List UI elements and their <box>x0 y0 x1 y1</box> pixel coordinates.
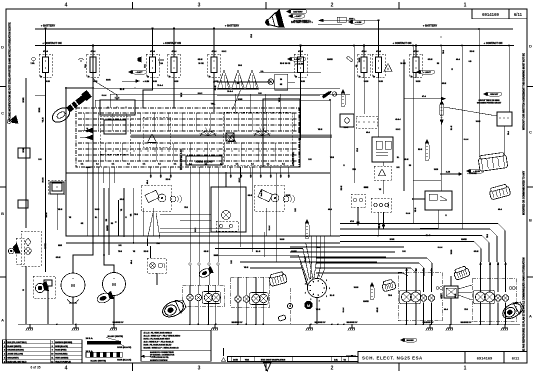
svg-text:RS-N: RS-N <box>470 51 475 53</box>
svg-text:6/11: 6/11 <box>512 356 520 361</box>
svg-text:30.08: 30.08 <box>476 121 481 123</box>
svg-text:30.08: 30.08 <box>43 177 45 183</box>
svg-text:6/11: 6/11 <box>514 12 523 17</box>
svg-text:MASSE DV CONNECTEUR: MASSE DV CONNECTEUR <box>150 351 174 354</box>
svg-text:GE-N: GE-N <box>404 159 409 161</box>
svg-text:+ LIGHT: + LIGHT <box>423 72 432 74</box>
svg-text:1: 1 <box>464 366 467 372</box>
svg-text:+ BATTERY: + BATTERY <box>423 24 437 28</box>
svg-text:ROSE (PINK): ROSE (PINK) <box>55 350 66 352</box>
svg-text:NOIR: NOIR <box>106 80 111 82</box>
svg-text:NOIR: NOIR <box>299 127 301 132</box>
svg-text:SCH. ELECT. NG25 ESA: SCH. ELECT. NG25 ESA <box>362 356 423 361</box>
svg-text:47-A-5 : FIL VERT-NOIR GRIS-N: 47-A-5 : FIL VERT-NOIR GRIS-N <box>144 332 173 335</box>
svg-text:3: 3 <box>305 292 306 294</box>
svg-text:4: 4 <box>65 366 68 372</box>
svg-text:BL-N: BL-N <box>451 125 453 130</box>
svg-text:BL-N: BL-N <box>426 235 431 237</box>
svg-text:RS-N: RS-N <box>144 251 149 253</box>
svg-text:GE-N: GE-N <box>204 251 209 253</box>
svg-text:49-A-4: 49-A-4 <box>395 118 400 121</box>
svg-text:30.58: 30.58 <box>300 81 305 83</box>
svg-text:9: 9 <box>52 350 53 352</box>
svg-text:12: 12 <box>51 361 53 363</box>
svg-text:BL-N: BL-N <box>330 295 335 297</box>
svg-text:30.58: 30.58 <box>416 81 421 83</box>
svg-text:49-A-5 : WIRE G-B * : FILO V: 49-A-5 : WIRE G-B * : FILO VERDE-NERO <box>144 335 181 338</box>
svg-text:6-A-4: 6-A-4 <box>86 166 91 169</box>
svg-text:+ BATTERY: + BATTERY <box>41 24 55 28</box>
svg-text:RS-N: RS-N <box>166 179 171 181</box>
svg-text:MASSE DV: MASSE DV <box>347 321 358 324</box>
svg-text:+ BATT: + BATT <box>295 58 303 61</box>
svg-text:D: D <box>1 45 4 50</box>
svg-text:7.5A: 7.5A <box>159 62 164 65</box>
svg-text:AVERT: AVERT <box>440 292 443 299</box>
svg-text:NOIR: NOIR <box>238 99 243 101</box>
svg-text:GE-N: GE-N <box>198 59 203 61</box>
svg-text:GRIS (GREY): GRIS (GREY) <box>7 357 19 359</box>
svg-text:MASSE DV: MASSE DV <box>315 321 326 324</box>
svg-text:30.08: 30.08 <box>280 239 285 241</box>
svg-text:+ LIGHNE: + LIGHNE <box>467 173 477 175</box>
svg-text:30.58: 30.58 <box>378 81 383 83</box>
svg-text:M: M <box>71 283 75 288</box>
svg-text:30.58: 30.58 <box>45 81 50 83</box>
svg-text:15A: 15A <box>84 64 87 68</box>
svg-text:DATE: DATE <box>233 358 239 361</box>
svg-text:RS-N: RS-N <box>341 185 343 190</box>
svg-text:MARR: MARR <box>291 250 297 253</box>
svg-text:VERT (GREEN): VERT (GREEN) <box>55 357 68 359</box>
svg-text:MASSE DV: MASSE DV <box>423 321 434 324</box>
svg-text:BL-N: BL-N <box>87 127 89 132</box>
svg-text:8: 8 <box>52 346 53 348</box>
svg-text:NOIR (BLACK): NOIR (BLACK) <box>117 359 131 362</box>
svg-text:JAUNE (YELLOW): JAUNE (YELLOW) <box>7 353 23 356</box>
svg-text:75-A-4: 75-A-4 <box>157 84 163 87</box>
svg-text:BLU (VIO, LIGHT BLU): BLU (VIO, LIGHT BLU) <box>7 342 26 344</box>
svg-text:SPEEDO CTRL: SPEEDO CTRL <box>293 151 295 166</box>
svg-text:8-B-2: 8-B-2 <box>239 178 241 183</box>
svg-text:6: 6 <box>4 361 5 363</box>
svg-text:BATTER DIRECT +: BATTER DIRECT + <box>294 19 313 22</box>
svg-text:NOIR: NOIR <box>390 239 395 241</box>
svg-text:30.58: 30.58 <box>152 81 157 83</box>
svg-text:10A: 10A <box>144 64 147 68</box>
svg-text:MARR: MARR <box>106 225 109 231</box>
svg-text:VE-N: VE-N <box>415 207 417 212</box>
svg-text:BLEU CIEL (SKY BLU): BLEU CIEL (SKY BLU) <box>7 361 26 363</box>
svg-text:WITHOUT OUR WRITTEN AGREEMENT: WITHOUT OUR WRITTEN AGREEMENT THIS DRAWI… <box>523 53 526 130</box>
svg-text:4: 4 <box>4 353 5 356</box>
svg-text:+ ALIM: + ALIM <box>355 21 362 24</box>
svg-text:NE PAS REPRODUIRE CE PLAN ET N: NE PAS REPRODUIRE CE PLAN ET NE PAS LE C… <box>523 257 526 352</box>
svg-text:30-A-4: 30-A-4 <box>227 90 233 93</box>
svg-text:GR-N: GR-N <box>428 59 433 61</box>
svg-text:NOIR (BLACK): NOIR (BLACK) <box>117 346 131 349</box>
svg-text:D.M.: D.M. <box>334 359 338 361</box>
svg-text:+ BATT: + BATT <box>295 15 303 18</box>
svg-text:30.08: 30.08 <box>95 209 100 211</box>
svg-text:BLANC (WHITE): BLANC (WHITE) <box>7 345 21 348</box>
svg-text:VE-N: VE-N <box>58 209 63 211</box>
svg-text:7.5A: 7.5A <box>31 62 36 65</box>
svg-text:49-B : WIRE R-N * : FILO ROS: 49-B : WIRE R-N * : FILO ROSA-N <box>144 341 174 344</box>
svg-text:ETAT AVANT MODIFICATION: ETAT AVANT MODIFICATION <box>261 358 286 361</box>
svg-text:8-B-2: 8-B-2 <box>364 187 369 189</box>
svg-text:VE-N: VE-N <box>244 267 249 269</box>
svg-text:VE-N: VE-N <box>316 309 321 311</box>
svg-text:2: 2 <box>331 366 334 372</box>
svg-text:NOIR: NOIR <box>286 195 291 197</box>
svg-text:RS-N: RS-N <box>344 127 349 129</box>
svg-text:NOTA : FIL ROSE-NOIR VERT: NOTA : FIL ROSE-NOIR VERT <box>144 338 171 341</box>
svg-text:GROSSING PRINTED CIRCUIT: GROSSING PRINTED CIRCUIT <box>477 103 502 105</box>
svg-text:GR-N: GR-N <box>377 307 379 312</box>
svg-text:BL: BL <box>95 217 97 219</box>
svg-text:6914169: 6914169 <box>477 356 493 361</box>
svg-text:C: C <box>529 130 532 135</box>
svg-text:BL-N: BL-N <box>256 251 261 253</box>
svg-text:VISA: VISA <box>245 358 250 361</box>
svg-text:6914169: 6914169 <box>482 12 499 17</box>
svg-text:+ BATT: + BATT <box>136 71 144 74</box>
svg-text:VIOLET (PURPLE): VIOLET (PURPLE) <box>55 361 71 363</box>
svg-text:A: A <box>1 318 4 323</box>
svg-text:+ CONTACT ON: + CONTACT ON <box>163 42 181 45</box>
svg-text:8-B-2: 8-B-2 <box>222 51 227 53</box>
svg-text:D: D <box>529 44 532 49</box>
svg-text:BATTERY: BATTERY <box>293 11 303 14</box>
svg-text:+ CONTACT ON: + CONTACT ON <box>484 42 503 45</box>
svg-text:MARR: MARR <box>363 300 369 303</box>
svg-text:6-A-4: 6-A-4 <box>342 308 345 313</box>
svg-text:30.58: 30.58 <box>364 81 369 83</box>
svg-text:* : LOCATION DU FIL: * : LOCATION DU FIL <box>150 356 170 359</box>
svg-text:30 OE: 30 OE <box>285 63 291 65</box>
svg-text:7: 7 <box>52 342 53 344</box>
svg-text:!: ! <box>388 67 389 71</box>
svg-text:MASSE : WIRE B-R * : NERO-RO: MASSE : WIRE B-R * : NERO-ROSSO-B <box>144 346 180 349</box>
svg-text:8-B-2: 8-B-2 <box>195 228 197 233</box>
svg-text:VE-N: VE-N <box>318 129 323 131</box>
svg-text:M: M <box>112 282 116 287</box>
svg-text:3-AB: 3-AB <box>446 171 451 174</box>
svg-text:3: 3 <box>4 350 5 352</box>
svg-text:GE-N: GE-N <box>379 223 381 228</box>
svg-text:VE-N: VE-N <box>43 117 45 122</box>
svg-text:BLANC (WHITE): BLANC (WHITE) <box>91 359 107 362</box>
svg-text:MARR: MARR <box>327 58 333 61</box>
svg-text:6-A-4: 6-A-4 <box>102 94 107 97</box>
svg-text:30.08: 30.08 <box>359 58 361 63</box>
svg-text:NOIR (BLACK): NOIR (BLACK) <box>55 345 68 348</box>
svg-text:MASSE DV: MASSE DV <box>232 321 243 324</box>
svg-text:2: 2 <box>331 3 334 9</box>
svg-text:+ BATTERY: + BATTERY <box>225 24 239 28</box>
svg-text:6-A-4: 6-A-4 <box>406 212 410 215</box>
svg-text:ORANGE (ORANG): ORANGE (ORANG) <box>7 349 24 352</box>
svg-text:B: B <box>529 218 532 223</box>
svg-text:30 OE: 30 OE <box>400 63 406 65</box>
svg-text:C: C <box>1 111 4 116</box>
svg-text:GE-N: GE-N <box>248 195 253 197</box>
svg-text:Jack for: Jack for <box>261 189 263 196</box>
svg-text:NOIR: NOIR <box>23 97 25 103</box>
svg-text:NOIR: NOIR <box>214 255 219 257</box>
svg-text:BLANC (WHITE): BLANC (WHITE) <box>108 335 124 338</box>
svg-text:BR-N: BR-N <box>46 212 48 217</box>
svg-text:NOIR : FIL NOIR-ROUGE BLEU: NOIR : FIL NOIR-ROUGE BLEU <box>144 345 172 347</box>
svg-text:11: 11 <box>51 357 53 359</box>
svg-text:+ ALIM: + ALIM <box>143 80 150 83</box>
svg-text:24 B.A.: 24 B.A. <box>86 337 94 340</box>
svg-text:3: 3 <box>305 284 306 286</box>
svg-text:30 OE: 30 OE <box>198 63 204 65</box>
svg-text:KM/MI 012345: KM/MI 012345 <box>195 160 213 164</box>
svg-text:GR-N: GR-N <box>474 251 479 253</box>
svg-text:NOIR: NOIR <box>39 107 41 112</box>
svg-text:ARM +: ARM + <box>349 18 356 21</box>
svg-text:MASSE DV: MASSE DV <box>461 321 472 324</box>
svg-text:6-A-4: 6-A-4 <box>464 138 469 141</box>
svg-text:BL-N: BL-N <box>120 89 125 91</box>
svg-text:A: A <box>529 314 532 319</box>
svg-text:+ 5 ALIM: + 5 ALIM <box>295 63 304 66</box>
svg-text:3: 3 <box>198 366 201 372</box>
svg-text:VE-N: VE-N <box>181 92 183 97</box>
svg-text:BL: BL <box>397 157 399 159</box>
svg-text:1: 1 <box>464 3 467 9</box>
svg-text:MASSE: MASSE <box>406 339 414 342</box>
svg-text:6-A-4: 6-A-4 <box>268 226 271 231</box>
svg-text:2: 2 <box>4 346 5 348</box>
svg-text:GR-N: GR-N <box>120 199 125 201</box>
svg-text:5: 5 <box>4 357 5 359</box>
svg-text:6-A-4: 6-A-4 <box>438 246 443 249</box>
svg-text:B: B <box>1 211 4 216</box>
svg-text:4: 4 <box>65 3 68 9</box>
svg-text:30.58: 30.58 <box>434 169 438 171</box>
svg-text:MARR: MARR <box>44 243 47 249</box>
svg-text:GR-N: GR-N <box>305 257 307 262</box>
svg-text:8-B-2: 8-B-2 <box>396 129 401 131</box>
svg-text:MODIFIED OR COMMUNICATED TO AN: MODIFIED OR COMMUNICATED TO ANY <box>523 170 526 215</box>
svg-text:CIRCUIT: CIRCUIT <box>490 94 499 96</box>
svg-text:ROUGE (RED): ROUGE (RED) <box>55 354 67 356</box>
svg-text:3: 3 <box>198 3 201 9</box>
svg-text:MARR: MARR <box>461 238 467 241</box>
svg-text:MARRON (BROWN): MARRON (BROWN) <box>55 341 72 344</box>
svg-text:30.58: 30.58 <box>174 81 179 83</box>
svg-text:10: 10 <box>51 354 53 356</box>
svg-text:30.08: 30.08 <box>451 250 453 255</box>
svg-text:ALWAYS POSITION: ALWAYS POSITION <box>150 359 168 362</box>
svg-text:6 of 35: 6 of 35 <box>30 366 40 370</box>
svg-text:WASH-WIPER 4-4V: WASH-WIPER 4-4V <box>180 149 183 170</box>
svg-text:GE-N: GE-N <box>215 85 217 90</box>
svg-text:8-B-2: 8-B-2 <box>198 93 203 95</box>
svg-text:GR-N: GR-N <box>56 257 61 259</box>
svg-text:30.58: 30.58 <box>93 81 98 83</box>
svg-text:30: 30 <box>280 79 282 81</box>
svg-text:30.08: 30.08 <box>354 287 359 289</box>
svg-text:+ CONTACT ON: + CONTACT ON <box>393 42 412 45</box>
svg-text:1: 1 <box>4 342 5 344</box>
svg-text:AUCUNE MODIFICATION NE DOIT ET: AUCUNE MODIFICATION NE DOIT ETRE APPORTE… <box>9 22 12 122</box>
